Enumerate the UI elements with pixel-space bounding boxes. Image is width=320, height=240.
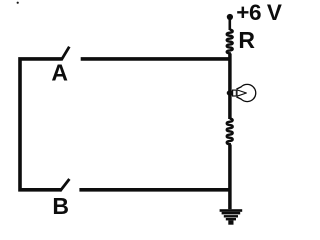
wire: left loop (top wire to switch A, left rail, bottom wire to switch B): [20, 59, 62, 190]
lamp inner beam triangle: [237, 90, 246, 96]
resistor R (vertical squiggle): [227, 30, 233, 54]
wire: resistor 2 to ground: [228, 145, 232, 210]
node: +6V supply dot: [227, 14, 233, 20]
wire: lamp to resistor 2: [228, 94, 232, 119]
wire: switch B to right rail: [79, 188, 231, 192]
svg-text:+6 V: +6 V: [236, 0, 282, 25]
svg-text:A: A: [51, 60, 68, 86]
wire: switch A to right rail: [81, 57, 232, 61]
svg-text:R: R: [238, 27, 255, 53]
resistor 2 (vertical squiggle, unlabeled): [227, 119, 233, 146]
switch B blade: [60, 179, 69, 191]
wire: supply dot to resistor R: [229, 17, 232, 30]
lamp socket: [233, 90, 237, 96]
stray ink speck (top-left): [17, 2, 19, 4]
svg-text:B: B: [52, 193, 69, 219]
switch A blade: [61, 47, 69, 61]
ground symbol (stacked bars): [220, 209, 243, 225]
wire: resistor R to lamp: [228, 54, 232, 93]
lamp (light bulb) base contact blob: [227, 90, 234, 96]
lamp glass outline: [236, 84, 255, 101]
